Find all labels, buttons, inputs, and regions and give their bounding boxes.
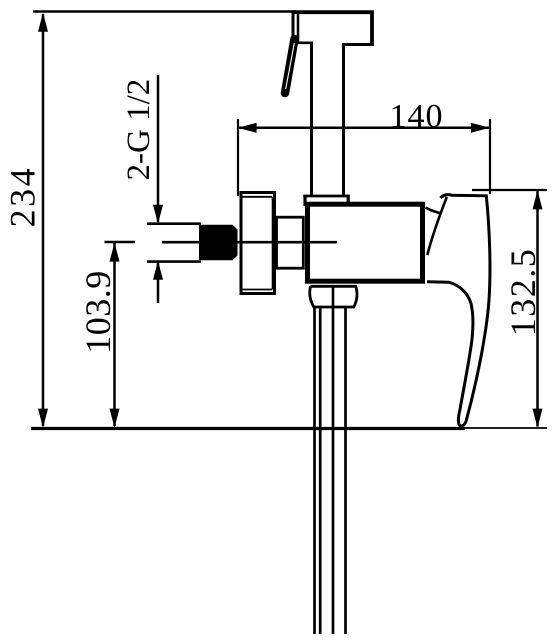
svg-text:234: 234: [2, 166, 42, 228]
svg-text:103.9: 103.9: [78, 270, 118, 354]
dimension 103.9: [78, 242, 135, 428]
connecting nut: [277, 217, 304, 268]
hose lines: [315, 306, 346, 634]
handle: [426, 195, 490, 426]
wall line: [31, 427, 465, 430]
center line: [162, 241, 337, 244]
faucet body: [308, 204, 423, 281]
sprayer head: [292, 11, 374, 47]
svg-text:2-G 1/2: 2-G 1/2: [121, 79, 157, 181]
dimension 234: [2, 13, 48, 428]
inlet shaft: [147, 224, 201, 262]
dimension 140: [238, 98, 490, 196]
thread block: [199, 225, 238, 260]
hose coupling nut: [310, 286, 357, 307]
neck flange: [303, 195, 349, 206]
nut middle line: [332, 286, 335, 307]
sprayer neck: [312, 43, 344, 197]
trigger lever: [285, 39, 295, 93]
top extension line: [33, 10, 296, 13]
svg-text:132.5: 132.5: [503, 248, 543, 337]
dimension 2-G 1/2: [121, 75, 163, 303]
escutcheon plate: [241, 193, 275, 294]
svg-text:140: 140: [390, 98, 444, 135]
dimension 132.5: [465, 190, 547, 428]
